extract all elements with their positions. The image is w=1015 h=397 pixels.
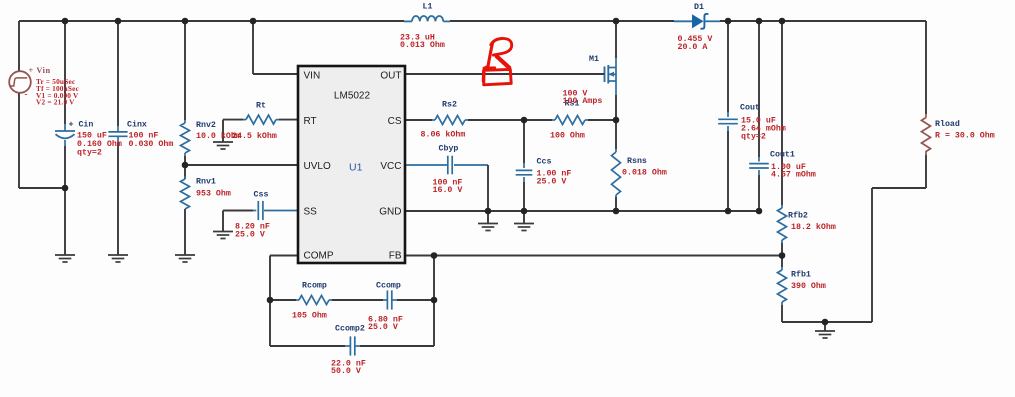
svg-text:+ Cin: + Cin	[69, 120, 94, 130]
svg-text:Cout: Cout	[740, 104, 760, 113]
svg-text:4.57 mOhm: 4.57 mOhm	[771, 170, 816, 180]
svg-text:V2 = 21.0 V: V2 = 21.0 V	[36, 98, 75, 107]
svg-text:8.06 kOhm: 8.06 kOhm	[421, 130, 466, 140]
svg-text:CS: CS	[388, 116, 402, 127]
svg-text:18.2 kOhm: 18.2 kOhm	[791, 222, 836, 232]
svg-text:R = 30.0 Ohm: R = 30.0 Ohm	[935, 131, 995, 141]
svg-text:25.0 V: 25.0 V	[235, 231, 265, 240]
svg-text:L1: L1	[423, 3, 433, 12]
svg-text:M1: M1	[589, 55, 599, 64]
svg-text:Rs2: Rs2	[442, 101, 457, 110]
svg-text:Rnv2: Rnv2	[196, 121, 216, 130]
svg-text:+ Vin: + Vin	[29, 66, 51, 75]
svg-text:Rt: Rt	[256, 102, 266, 111]
svg-text:Rfb2: Rfb2	[788, 211, 808, 221]
svg-text:Cinx: Cinx	[127, 120, 147, 130]
svg-text:-: -	[25, 89, 28, 99]
svg-text:U1: U1	[349, 162, 363, 174]
svg-text:OUT: OUT	[380, 71, 401, 82]
svg-text:Rcomp: Rcomp	[302, 282, 327, 291]
svg-text:Ccs: Ccs	[537, 158, 552, 167]
svg-text:25.0 V: 25.0 V	[537, 178, 567, 187]
svg-text:25.0 V: 25.0 V	[368, 323, 398, 332]
svg-text:0.160 Ohm: 0.160 Ohm	[77, 139, 122, 149]
svg-text:0.013 Ohm: 0.013 Ohm	[400, 40, 445, 50]
svg-text:VCC: VCC	[380, 161, 401, 172]
svg-text:UVLO: UVLO	[304, 161, 331, 172]
svg-text:D1: D1	[694, 3, 704, 12]
svg-text:0.018 Ohm: 0.018 Ohm	[622, 168, 667, 178]
svg-text:24.5 kOhm: 24.5 kOhm	[232, 131, 277, 141]
svg-text:VIN: VIN	[304, 71, 321, 82]
svg-text:953 Ohm: 953 Ohm	[196, 189, 231, 199]
svg-text:20.0 A: 20.0 A	[678, 43, 708, 52]
svg-text:16.0 V: 16.0 V	[433, 186, 463, 195]
svg-text:Rload: Rload	[935, 119, 960, 129]
svg-text:Rsns: Rsns	[627, 157, 647, 166]
svg-text:LM5022: LM5022	[334, 91, 371, 102]
svg-text:Ccomp: Ccomp	[376, 282, 401, 291]
svg-text:100 Amps: 100 Amps	[563, 97, 603, 106]
svg-text:qty=2: qty=2	[77, 149, 102, 158]
svg-text:50.0 V: 50.0 V	[331, 367, 361, 376]
svg-text:Cout1: Cout1	[770, 151, 795, 160]
svg-text:Cbyp: Cbyp	[439, 144, 459, 154]
svg-text:Ccomp2: Ccomp2	[335, 325, 365, 334]
svg-text:Rnv1: Rnv1	[196, 178, 216, 187]
svg-text:100 Ohm: 100 Ohm	[550, 131, 585, 141]
svg-text:RT: RT	[304, 116, 317, 127]
svg-text:GND: GND	[379, 207, 401, 218]
svg-text:SS: SS	[304, 207, 318, 218]
svg-text:Css: Css	[254, 191, 269, 200]
svg-text:Rfb1: Rfb1	[791, 270, 811, 280]
svg-text:390 Ohm: 390 Ohm	[791, 281, 826, 291]
svg-text:FB: FB	[389, 251, 402, 262]
svg-text:qty=2: qty=2	[741, 133, 766, 142]
svg-text:0.030 Ohm: 0.030 Ohm	[129, 139, 174, 149]
svg-text:105 Ohm: 105 Ohm	[292, 311, 327, 321]
svg-text:COMP: COMP	[304, 251, 334, 262]
